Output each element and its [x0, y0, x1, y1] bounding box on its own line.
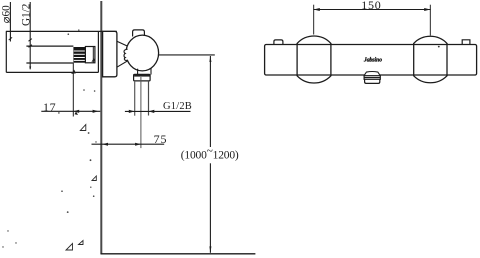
svg-text:75: 75: [154, 132, 168, 146]
svg-text:(1000~1200): (1000~1200): [181, 146, 239, 162]
svg-text:Jabsino: Jabsino: [363, 58, 382, 64]
svg-text:G1/2B: G1/2B: [163, 101, 192, 112]
svg-text:150: 150: [361, 0, 381, 12]
svg-text:17: 17: [43, 100, 56, 114]
svg-text:G1/2: G1/2: [21, 4, 33, 26]
svg-text:⌀60: ⌀60: [1, 5, 13, 23]
